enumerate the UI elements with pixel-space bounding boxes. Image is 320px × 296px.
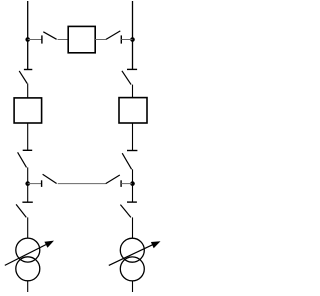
disconnector DS10 (right transformer isolator, open) bbox=[120, 202, 136, 217]
right busbar bbox=[132, 1, 134, 69]
disconnector DS5 (middle bridge left, open) bbox=[42, 174, 57, 187]
breaker CB1 (bus coupler) bbox=[68, 26, 95, 52]
breaker CB3 (right feeder) bbox=[119, 98, 147, 123]
OLTC arrow (transformer T1) bbox=[5, 241, 54, 266]
wire (right top stub) bbox=[121, 39, 132, 41]
wire (DS10 to transformer T2) bbox=[132, 217, 134, 238]
disconnector DS3 (left feeder upper, open) bbox=[19, 70, 32, 84]
disconnector DS8 (right feeder upper, open) bbox=[122, 69, 137, 84]
wire (T2 tail) bbox=[132, 281, 134, 292]
wire (DS7 to transformer T1) bbox=[27, 217, 29, 238]
node B (right top junction) bbox=[130, 37, 135, 42]
wire (CB2 to DS4) bbox=[27, 123, 29, 150]
transformer T2 (two-winding) bbox=[120, 238, 144, 281]
wire (DS8 to CB3) bbox=[132, 85, 134, 98]
OLTC arrow (transformer T2) bbox=[109, 241, 161, 265]
node A (left top junction) bbox=[25, 37, 30, 42]
wire (left top stub) bbox=[28, 39, 42, 41]
left busbar bbox=[27, 1, 29, 69]
wire (left middle stub) bbox=[28, 183, 42, 185]
wire (breaker to DS2) bbox=[95, 39, 106, 41]
disconnector DS1 (top left, open) bbox=[42, 32, 57, 44]
breaker CB2 (left feeder) bbox=[14, 98, 41, 123]
transformer T1 (two-winding) bbox=[16, 238, 40, 281]
disconnector DS4 (left feeder lower, open) bbox=[18, 150, 33, 167]
wire (CB3 to DS9) bbox=[132, 123, 134, 150]
wire (right middle stub) bbox=[121, 183, 132, 185]
wire (middle bridge) bbox=[58, 183, 106, 185]
wire (DS9 through node D to DS10) bbox=[132, 169, 134, 202]
disconnector DS7 (left transformer isolator, open) bbox=[16, 202, 33, 217]
wire (T1 tail) bbox=[27, 281, 29, 292]
wire (DS4 through node C to DS7) bbox=[27, 167, 29, 202]
disconnector DS9 (right feeder lower, open) bbox=[122, 151, 137, 170]
node C (left middle junction) bbox=[25, 181, 30, 186]
disconnector DS6 (middle bridge right, open) bbox=[106, 175, 121, 187]
node D (right middle junction) bbox=[130, 181, 135, 186]
disconnector DS2 (top right, open) bbox=[106, 31, 121, 44]
wire (DS3 to CB2) bbox=[27, 84, 29, 99]
wire (DS1 to breaker) bbox=[58, 39, 69, 41]
